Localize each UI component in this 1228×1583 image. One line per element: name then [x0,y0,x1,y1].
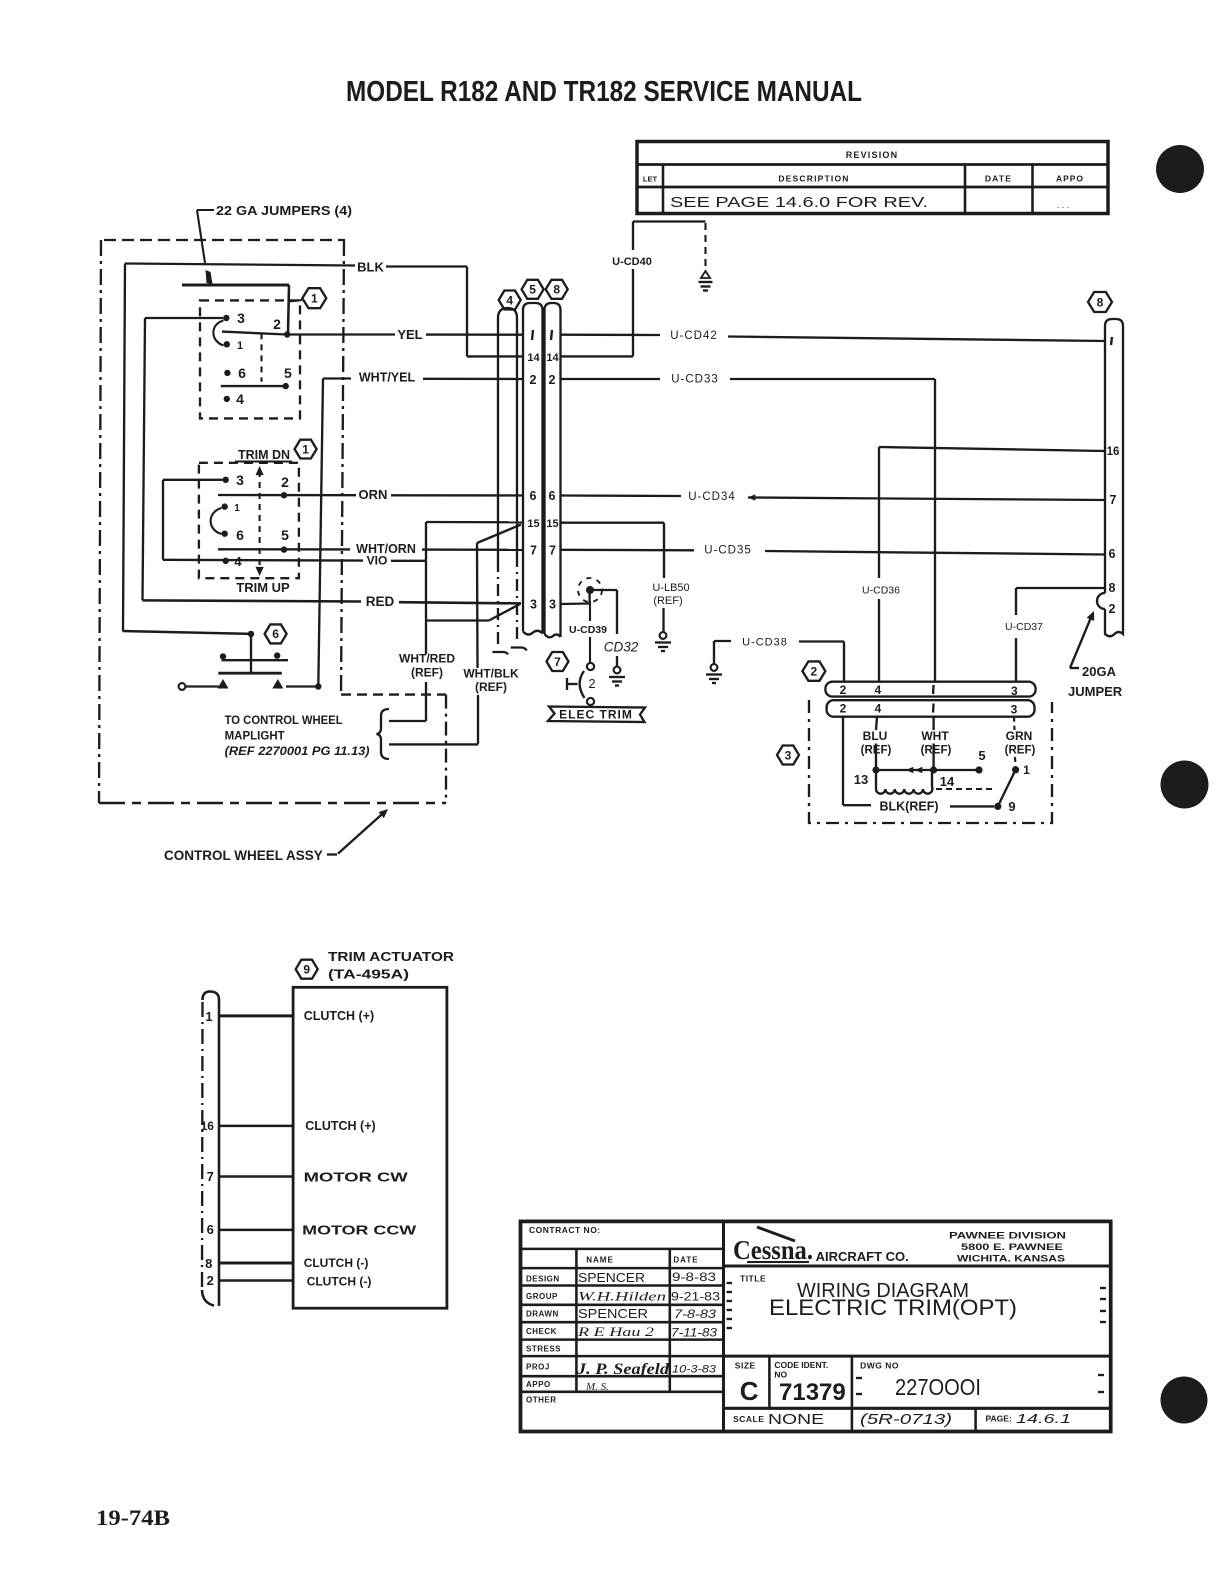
svg-text:1: 1 [237,340,243,352]
svg-text:DRAWN: DRAWN [526,1310,559,1319]
svg-text:4: 4 [875,683,882,697]
svg-text:U-CD36: U-CD36 [862,585,900,597]
svg-text:19-74B: 19-74B [96,1505,170,1530]
svg-text:4: 4 [236,391,244,407]
svg-text:TRIM DN: TRIM DN [238,448,290,462]
svg-text:U-CD34: U-CD34 [688,491,736,503]
svg-text:10-3-83: 10-3-83 [672,1364,717,1376]
svg-text:BLU: BLU [863,729,888,743]
svg-text:3: 3 [237,310,245,326]
svg-text:6: 6 [236,527,244,543]
svg-text:U-CD38: U-CD38 [742,637,788,649]
svg-text:AIRCRAFT CO.: AIRCRAFT CO. [816,1249,909,1264]
svg-text:6: 6 [272,627,279,641]
svg-text:1: 1 [302,442,309,456]
svg-text:DATE: DATE [673,1256,698,1265]
svg-text:WHT/RED: WHT/RED [399,652,455,666]
svg-text:7: 7 [530,544,537,558]
svg-text:TITLE: TITLE [740,1274,766,1284]
svg-text:LET: LET [643,175,658,184]
svg-text:6: 6 [1109,547,1116,561]
svg-text:16: 16 [201,1119,215,1133]
svg-text:U-CD42: U-CD42 [670,330,718,342]
svg-text:16: 16 [1107,446,1120,458]
svg-text:CONTRACT NO:: CONTRACT NO: [529,1225,601,1235]
svg-text:(TA-495A): (TA-495A) [328,967,409,982]
svg-text:3: 3 [785,748,792,762]
svg-text:RED: RED [366,594,395,609]
svg-text:J. P. Seafeld: J. P. Seafeld [576,1361,670,1378]
svg-text:6: 6 [207,1222,214,1237]
svg-text:CODE IDENT.: CODE IDENT. [774,1360,828,1370]
svg-text:15: 15 [546,518,558,530]
svg-text:2: 2 [549,373,556,387]
svg-text:SPENCER: SPENCER [578,1271,645,1285]
svg-text:OTHER: OTHER [526,1396,557,1405]
svg-text:71379: 71379 [779,1379,846,1406]
svg-text:9-21-83: 9-21-83 [671,1292,720,1304]
svg-text:JUMPER: JUMPER [1068,684,1123,699]
svg-text:U-CD35: U-CD35 [704,545,752,557]
svg-text:WHT/YEL: WHT/YEL [359,371,416,385]
svg-text:DESCRIPTION: DESCRIPTION [778,174,849,184]
svg-text:2: 2 [588,676,595,691]
svg-text:WICHITA. KANSAS: WICHITA. KANSAS [957,1254,1065,1264]
svg-text:2: 2 [840,683,847,697]
svg-text:2: 2 [281,474,289,490]
svg-text:TO CONTROL WHEEL: TO CONTROL WHEEL [225,715,343,727]
svg-text:SIZE: SIZE [735,1361,756,1371]
svg-text:2: 2 [1109,602,1116,616]
svg-text:MAPLIGHT: MAPLIGHT [225,731,285,743]
svg-text:2: 2 [811,664,818,678]
svg-text:DESIGN: DESIGN [526,1275,560,1284]
svg-text:M. S.: M. S. [585,1381,609,1393]
svg-text:3: 3 [236,472,244,488]
svg-text:5: 5 [284,365,292,381]
svg-text:CD32: CD32 [604,640,639,655]
svg-text:STRESS: STRESS [526,1345,561,1354]
svg-text:(REF): (REF) [921,745,952,757]
svg-text:CLUTCH (-): CLUTCH (-) [304,1256,369,1270]
svg-text:6: 6 [530,489,537,503]
svg-text:8: 8 [1097,295,1104,309]
svg-text:APPO: APPO [526,1380,551,1389]
svg-text:. . .: . . . [1057,200,1070,210]
svg-text:W.H.Hilden: W.H.Hilden [578,1289,666,1304]
svg-text:(5R-0713): (5R-0713) [860,1411,952,1428]
svg-text:4: 4 [234,554,242,569]
svg-text:CLUTCH (+): CLUTCH (+) [305,1119,375,1133]
svg-text:PROJ: PROJ [526,1363,550,1372]
svg-text:7-8-83: 7-8-83 [674,1307,716,1321]
svg-text:2: 2 [530,373,537,387]
svg-text:GROUP: GROUP [526,1292,558,1301]
svg-text:U-CD37: U-CD37 [1005,621,1043,633]
svg-text:(REF): (REF) [1005,745,1036,757]
svg-text:8: 8 [553,283,560,297]
svg-text:CLUTCH (+): CLUTCH (+) [304,1009,374,1023]
svg-text:9: 9 [303,963,310,977]
svg-text:REVISION: REVISION [846,150,899,160]
svg-text:4: 4 [506,293,513,307]
svg-text:5: 5 [529,283,536,297]
svg-text:C: C [740,1376,759,1406]
svg-text:NAME: NAME [586,1256,614,1265]
svg-text:8: 8 [205,1256,212,1271]
svg-text:7: 7 [554,655,561,669]
svg-text:CONTROL WHEEL ASSY: CONTROL WHEEL ASSY [164,848,323,863]
svg-text:6: 6 [549,489,556,503]
svg-text:TRIM UP: TRIM UP [236,580,290,595]
svg-text:13: 13 [854,772,868,787]
svg-text:14: 14 [940,774,955,789]
svg-text:3: 3 [1011,684,1018,698]
svg-text:6: 6 [238,365,246,381]
svg-text:Cessna.: Cessna. [733,1235,813,1265]
svg-text:5800 E. PAWNEE: 5800 E. PAWNEE [961,1242,1063,1252]
svg-text:2: 2 [207,1273,214,1288]
svg-text:5: 5 [281,527,289,543]
svg-text:227OOOI: 227OOOI [895,1374,981,1400]
svg-text:SPENCER: SPENCER [578,1307,648,1321]
svg-text:PAGE:: PAGE: [986,1414,1012,1424]
svg-text:2: 2 [273,316,281,332]
svg-text:2: 2 [840,702,847,716]
svg-text:1: 1 [234,503,240,514]
svg-text:7: 7 [549,544,556,558]
svg-text:APPO: APPO [1056,174,1084,184]
svg-text:ELECTRIC TRIM(OPT): ELECTRIC TRIM(OPT) [769,1295,1017,1320]
svg-text:BLK(REF): BLK(REF) [879,800,938,814]
svg-text:4: 4 [875,702,882,716]
svg-text:3: 3 [549,598,556,612]
svg-text:NO: NO [774,1370,787,1380]
svg-text:MOTOR CW: MOTOR CW [304,1170,409,1185]
svg-text:PAWNEE DIVISION: PAWNEE DIVISION [949,1231,1066,1241]
svg-text:TRIM ACTUATOR: TRIM ACTUATOR [328,949,455,964]
svg-text:14.6.1: 14.6.1 [1016,1412,1071,1426]
svg-text:1: 1 [311,292,318,306]
svg-text:(REF 2270001 PG 11.13): (REF 2270001 PG 11.13) [225,746,370,758]
svg-text:NONE: NONE [768,1411,824,1428]
svg-text:WHT/BLK: WHT/BLK [463,667,519,681]
svg-text:22 GA JUMPERS (4): 22 GA JUMPERS (4) [216,204,352,218]
svg-text:YEL: YEL [397,327,422,342]
svg-text:DATE: DATE [985,174,1012,184]
svg-text:1: 1 [205,1009,212,1024]
svg-text:CLUTCH (-): CLUTCH (-) [307,1275,372,1289]
svg-text:3: 3 [1011,703,1018,717]
svg-text:20GA: 20GA [1082,664,1117,679]
svg-text:14: 14 [527,352,540,364]
svg-text:CHECK: CHECK [526,1327,557,1336]
svg-text:GRN: GRN [1006,729,1033,743]
svg-text:3: 3 [530,598,537,612]
svg-text:SEE PAGE 14.6.0 FOR REV.: SEE PAGE 14.6.0 FOR REV. [670,195,928,211]
svg-text:14: 14 [546,352,559,364]
svg-text:8: 8 [1109,581,1116,595]
svg-text:9: 9 [1008,799,1015,814]
svg-text:DWG NO: DWG NO [860,1361,899,1371]
svg-text:(REF): (REF) [411,666,443,680]
svg-text:U-CD40: U-CD40 [612,256,652,268]
svg-text:U-CD33: U-CD33 [671,374,719,386]
svg-text:SCALE: SCALE [733,1414,764,1424]
svg-text:U-LB50: U-LB50 [652,582,689,594]
svg-text:(REF): (REF) [653,595,682,607]
svg-text:ELEC TRIM: ELEC TRIM [559,708,633,722]
svg-text:BLK: BLK [357,260,384,275]
svg-text:5: 5 [978,748,985,763]
svg-text:15: 15 [527,518,539,530]
svg-text:R E Hau 2: R E Hau 2 [577,1324,655,1339]
svg-text:7: 7 [1110,493,1117,507]
svg-text:(REF): (REF) [475,680,507,694]
svg-text:7: 7 [207,1169,214,1184]
svg-text:1: 1 [1023,763,1030,777]
svg-text:9-8-83: 9-8-83 [672,1270,716,1284]
svg-text:ORN: ORN [359,487,388,502]
svg-text:WHT: WHT [921,729,949,743]
svg-text:VIO: VIO [367,554,388,568]
svg-text:MOTOR CCW: MOTOR CCW [302,1223,417,1238]
svg-text:7-11-83: 7-11-83 [671,1328,718,1340]
svg-text:U-CD39: U-CD39 [569,624,607,636]
svg-text:MODEL R182 AND TR182 SERVICE M: MODEL R182 AND TR182 SERVICE MANUAL [346,76,862,108]
